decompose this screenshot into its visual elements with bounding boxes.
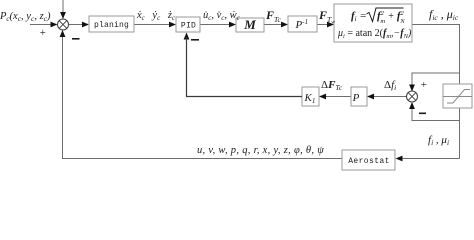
svg-text:fi =: fi = xyxy=(351,10,367,23)
svg-text:FTc: FTc xyxy=(265,8,281,24)
svg-text:u̇c, v̇c, ẇc: u̇c, v̇c, ẇc xyxy=(203,10,241,22)
svg-text:ΔFTc: ΔFTc xyxy=(321,79,343,92)
svg-text:M: M xyxy=(243,17,256,32)
svg-text:+: + xyxy=(420,79,427,91)
svg-text:planing: planing xyxy=(94,21,129,30)
svg-text:fic , μic: fic , μic xyxy=(429,7,459,22)
svg-text:Aerostat: Aerostat xyxy=(348,157,390,166)
svg-text:ẋc ẏc żc: ẋc ẏc żc xyxy=(136,10,176,22)
svg-text:μi = atan 2(fm,−fN): μi = atan 2(fm,−fN) xyxy=(337,28,412,40)
svg-text:+: + xyxy=(39,27,46,39)
svg-text:Pc(xc, yc, zc): Pc(xc, yc, zc) xyxy=(0,11,51,23)
svg-text:P: P xyxy=(352,92,360,104)
svg-text:u, v, w, p, q, r, x, y, z, φ,: u, v, w, p, q, r, x, y, z, φ, θ, ψ xyxy=(197,145,324,156)
svg-text:PID: PID xyxy=(181,21,196,30)
svg-text:FTw: FTw xyxy=(318,8,335,26)
svg-text:fi , μi: fi , μi xyxy=(428,134,449,147)
svg-text:Δfi: Δfi xyxy=(384,79,396,92)
